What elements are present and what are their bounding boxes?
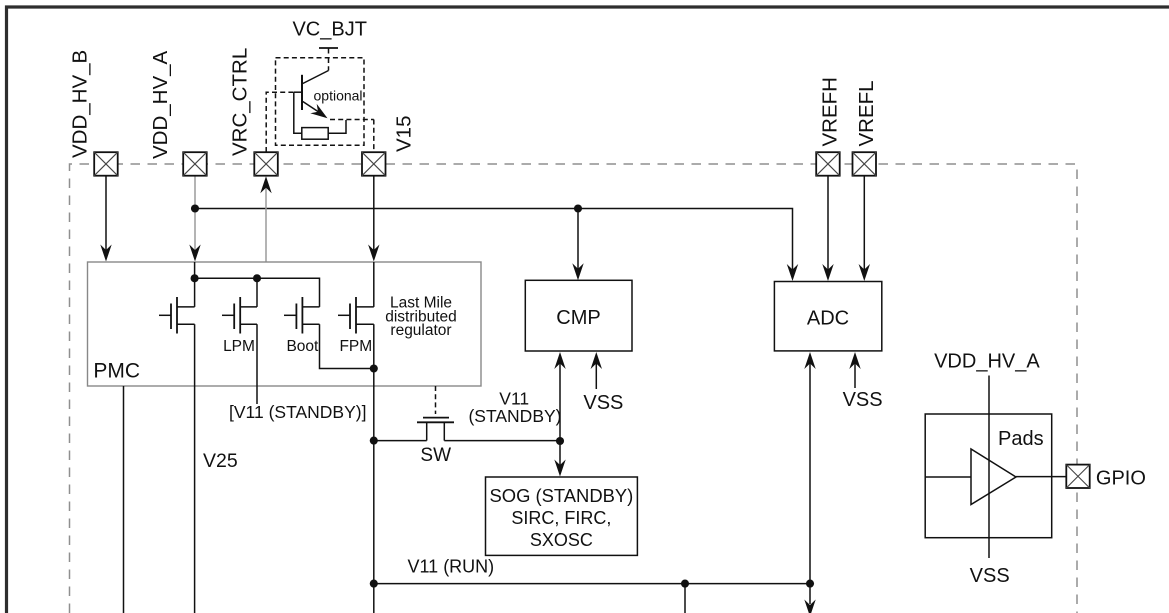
wire FPM source down (V11)	[373, 324, 375, 583]
svg-text:SW: SW	[420, 445, 451, 466]
wire VREFH pad to ADC	[827, 176, 829, 271]
wire Boot source to FPM line	[320, 324, 374, 368]
transistor LPM	[222, 297, 257, 334]
wire CMP VSS stub	[595, 362, 597, 389]
CMP box	[525, 280, 632, 351]
svg-text:VC_BJT: VC_BJT	[292, 19, 366, 41]
wire Pads cell VSS stub	[988, 538, 990, 558]
ADC box	[774, 282, 881, 351]
wire emitter out dashed	[330, 119, 374, 121]
svg-text:optional: optional	[314, 88, 363, 104]
optional circuit dashed box	[276, 58, 365, 146]
pad VDD_HV_A	[183, 152, 207, 176]
wire dashed VRC_CTRL to base	[266, 92, 294, 152]
pad VDD_HV_B	[94, 152, 118, 176]
svg-text:VSS: VSS	[843, 389, 883, 411]
wire bus to CMP	[577, 209, 579, 270]
wire PMC bottom left output	[123, 386, 125, 613]
wire VDD_HV_A pad down to PMC	[194, 176, 196, 252]
transistor Q1 BJT	[294, 71, 329, 119]
svg-text:VDD_HV_A: VDD_HV_A	[149, 50, 172, 159]
PMC box	[88, 262, 482, 386]
svg-text:V15: V15	[393, 116, 416, 152]
svg-text:PMC: PMC	[93, 360, 140, 383]
pad VREFL	[853, 152, 877, 176]
svg-text:VDD_HV_B: VDD_HV_B	[69, 50, 92, 158]
svg-text:VREFH: VREFH	[819, 77, 842, 146]
wire V15 pad down to PMC	[373, 176, 375, 252]
wire base to resistor	[294, 92, 302, 133]
pad VREFH	[816, 152, 840, 176]
wire ADC VSS stub	[854, 362, 856, 388]
wire VREFL pad to ADC	[863, 176, 865, 271]
node V11 standby junction	[556, 437, 564, 445]
svg-text:VRC_CTRL: VRC_CTRL	[229, 48, 252, 156]
wire T1 drain vertical	[194, 262, 196, 307]
wire below ADC node with down arrow	[809, 584, 811, 604]
svg-text:VDD_HV_A: VDD_HV_A	[934, 350, 1040, 372]
transistor T1	[159, 297, 195, 334]
transistor SW	[417, 386, 454, 441]
node Boot-FPM junction	[370, 364, 378, 372]
svg-text:SXOSC: SXOSC	[530, 530, 593, 550]
node V11 RUN left corner	[370, 580, 378, 588]
wire V11 RUN middle drop	[684, 584, 686, 613]
wire VC_BJT collector dashed	[328, 58, 330, 71]
node V11 RUN middle tap	[681, 580, 689, 588]
wire dashed down to V15 pad	[373, 120, 375, 153]
svg-text:LPM: LPM	[223, 338, 255, 355]
svg-text:SIRC, FIRC,: SIRC, FIRC,	[511, 508, 611, 528]
wire V25 (T1 source down)	[194, 324, 196, 613]
wire buffer input	[925, 476, 971, 478]
wire node to SOG	[559, 441, 561, 466]
wire FPM drain vertical	[373, 262, 375, 307]
pad GPIO	[1066, 465, 1089, 488]
SOG box	[486, 477, 638, 555]
wire LPM drain	[256, 278, 258, 307]
svg-text:VSS: VSS	[583, 392, 623, 414]
Pads box	[925, 414, 1051, 538]
wire SW left	[374, 440, 427, 442]
svg-text:VREFL: VREFL	[855, 80, 878, 146]
node SW left tap	[370, 437, 378, 445]
node VDD_HV_A bus tap	[191, 204, 199, 212]
wire LPM source to [V11 STANDBY]	[256, 324, 258, 404]
terminal VC_BJT	[319, 47, 338, 49]
node rail junction T1	[191, 274, 199, 282]
pad VRC_CTRL	[254, 152, 278, 176]
svg-text:FPM: FPM	[339, 338, 372, 355]
wire CMP down to V11 standby node	[559, 362, 561, 441]
wire VDD_HV_B pad to PMC	[105, 176, 107, 252]
svg-text:CMP: CMP	[556, 307, 600, 329]
wire V11 below corner	[373, 584, 375, 613]
svg-text:Boot: Boot	[286, 338, 319, 355]
node ADC / V11 RUN junction	[806, 580, 814, 588]
wire SW right to V11 standby node	[444, 440, 560, 442]
svg-text:ADC: ADC	[807, 307, 849, 329]
wire V11 RUN horizontal	[374, 583, 810, 585]
wire ADC down to V11 RUN	[809, 362, 811, 584]
transistor FPM	[338, 297, 374, 334]
wire resistor to emitter	[328, 120, 346, 133]
svg-text:(STANDBY): (STANDBY)	[468, 406, 561, 426]
svg-text:V25: V25	[203, 450, 238, 472]
wire VDD_HV_A to Pads cell	[988, 376, 990, 538]
svg-text:regulator: regulator	[390, 322, 451, 339]
svg-text:GPIO: GPIO	[1096, 468, 1146, 490]
node rail junction LPM	[253, 274, 261, 282]
bus wire VDD_HV_A to ADC	[195, 209, 793, 271]
node bus to CMP tap	[574, 204, 582, 212]
wire buffer output to GPIO pad	[1016, 476, 1066, 478]
resistor R1	[302, 128, 328, 140]
svg-text:Pads: Pads	[998, 428, 1044, 450]
wire PMC to VRC_CTRL pad (arrow up)	[265, 187, 267, 262]
transistor Boot	[284, 297, 320, 334]
op-amp buffer U1	[971, 449, 1016, 505]
svg-text:VSS: VSS	[970, 565, 1010, 587]
svg-text:[V11 (STANDBY)]: [V11 (STANDBY)]	[229, 402, 366, 422]
svg-text:V11 (RUN): V11 (RUN)	[408, 557, 495, 577]
wire PMC internal top rail	[195, 278, 320, 307]
pad V15	[362, 152, 386, 176]
chip boundary dashed	[70, 164, 1078, 613]
svg-text:SOG (STANDBY): SOG (STANDBY)	[490, 485, 634, 506]
